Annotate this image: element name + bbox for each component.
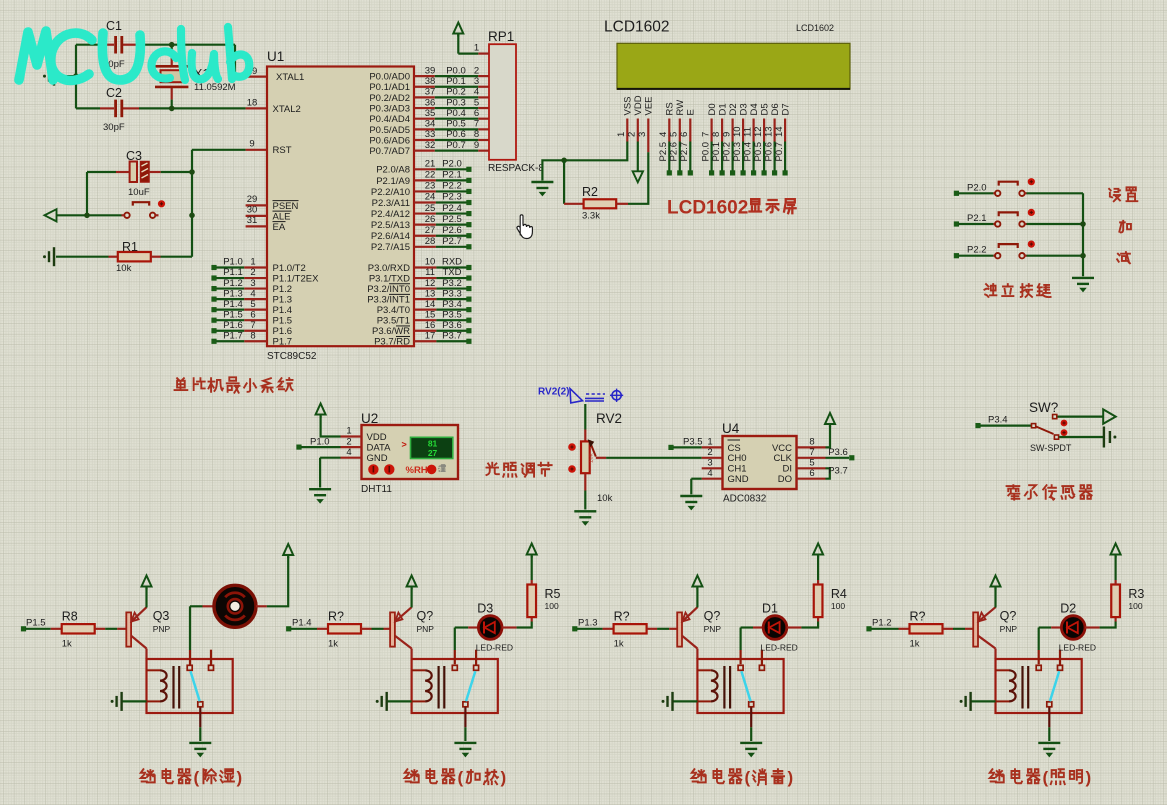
svg-text:>: >	[402, 440, 407, 450]
svg-text:25: 25	[425, 203, 436, 214]
pin P0.5 net to RP1 pin 34 to 7	[414, 128, 435, 130]
svg-text:VDD: VDD	[367, 432, 387, 443]
svg-text:P3.3/INT1: P3.3/INT1	[367, 295, 410, 306]
svg-text:): )	[237, 768, 243, 787]
svg-text:VSS: VSS	[623, 96, 634, 115]
svg-text:P3.4/T0: P3.4/T0	[377, 305, 410, 316]
wire P1.0 to DATA	[301, 446, 341, 448]
svg-text:10: 10	[425, 257, 436, 268]
svg-text:10: 10	[732, 126, 743, 137]
svg-text:(: (	[458, 768, 464, 787]
svg-text:29: 29	[247, 194, 258, 205]
terminal P2.2	[954, 253, 959, 258]
svg-text:ALE: ALE	[273, 211, 291, 222]
svg-text:P0.4: P0.4	[446, 108, 466, 119]
wire base resistor to Q?	[372, 628, 384, 630]
switch SW-SPDT	[1032, 424, 1036, 428]
svg-text:38: 38	[425, 76, 436, 87]
svg-text:P3.3: P3.3	[442, 288, 462, 299]
label shezhi red	[1109, 189, 1120, 201]
wire R1 right	[161, 256, 193, 258]
wire LCD D0 net P0.0	[710, 142, 712, 171]
wire LCD D1 net P0.1	[721, 142, 723, 171]
svg-text:R3: R3	[1128, 587, 1144, 601]
svg-text:12: 12	[425, 278, 436, 289]
label hall sensor red	[1007, 485, 1020, 499]
svg-text:P1.0/T2: P1.0/T2	[273, 263, 306, 274]
svg-text:): )	[501, 768, 507, 787]
pin P2.5 net pin 26	[414, 224, 436, 226]
crystal X1 11.0592M	[171, 45, 173, 55]
wire switch upper to power arrow	[1058, 416, 1104, 418]
wire VDD down	[637, 142, 639, 172]
svg-text:8: 8	[711, 132, 722, 137]
wire relay contact to D2	[1038, 650, 1040, 664]
svg-text:9: 9	[474, 140, 479, 151]
wire relay contact to D3	[454, 650, 456, 664]
svg-text:P0.6: P0.6	[446, 129, 466, 140]
svg-text:12: 12	[753, 126, 764, 137]
terminal P1.3	[572, 626, 577, 631]
wire LCD RW net P2.6	[679, 142, 681, 171]
svg-text:(: (	[1043, 768, 1049, 787]
svg-text:R?: R?	[614, 610, 630, 624]
pin P1.4 stub pin 5	[244, 309, 267, 311]
pin ALE stub pin 30	[246, 215, 267, 217]
svg-text:4: 4	[658, 132, 669, 137]
power arrow R4	[813, 544, 823, 555]
svg-text:26: 26	[425, 214, 436, 225]
relay blade block2	[466, 671, 475, 701]
svg-text:E: E	[686, 109, 697, 115]
relay coil block1	[147, 669, 161, 671]
svg-text:D4: D4	[749, 103, 760, 115]
svg-text:P2.2/A10: P2.2/A10	[371, 187, 410, 198]
pin P1.5 stub pin 6	[244, 319, 267, 321]
wire D1 to R4	[787, 626, 802, 628]
svg-text:VEE: VEE	[644, 96, 655, 115]
svg-text:3: 3	[637, 132, 648, 137]
svg-text:P2.7/A15: P2.7/A15	[371, 242, 410, 253]
wire relay1 left contact to motor	[189, 650, 191, 665]
svg-text:P1.4: P1.4	[292, 617, 312, 628]
wire P2.0 to button	[959, 192, 994, 194]
wire relay coil pin to ground block3	[673, 700, 698, 702]
wire P1.5 to base resistor	[26, 628, 51, 630]
wire relay contact to D1	[739, 650, 741, 664]
relay box block4	[996, 659, 1082, 713]
pin ADC GND pin 4	[702, 478, 723, 480]
svg-text:P3.5: P3.5	[683, 437, 703, 448]
wire button P2.2 to bus	[1027, 255, 1084, 257]
probe dashes blue	[586, 393, 605, 395]
svg-text:U2: U2	[361, 411, 378, 426]
resistor R8 1k	[51, 628, 62, 630]
svg-text:28: 28	[425, 236, 436, 247]
pin P3.3 net pin 13	[414, 298, 436, 300]
wire RST net to chip	[192, 149, 246, 151]
svg-text:RV2: RV2	[596, 411, 622, 426]
lcd LCD1602 screen	[617, 43, 850, 89]
resistor R4 100	[817, 617, 819, 621]
pin P0.6 net to RP1 pin 33 to 8	[414, 139, 435, 141]
svg-text:100: 100	[545, 601, 559, 611]
svg-text:P1.1: P1.1	[223, 267, 243, 278]
svg-text:3: 3	[707, 458, 712, 469]
svg-text:CH0: CH0	[728, 453, 747, 464]
relay box block2	[412, 659, 498, 713]
svg-text:D1: D1	[717, 103, 728, 115]
svg-text:SW?: SW?	[1029, 400, 1058, 415]
button P2.1	[993, 223, 995, 225]
svg-text:P2.4/A12: P2.4/A12	[371, 209, 410, 220]
pin P2.6 net pin 27	[414, 235, 436, 237]
svg-text:SW-SPDT: SW-SPDT	[1030, 443, 1072, 453]
svg-text:R5: R5	[545, 587, 561, 601]
wire R5 to power	[531, 556, 533, 580]
svg-text:RP1: RP1	[488, 29, 514, 44]
wire LCD D7 net P0.7	[784, 142, 786, 171]
svg-text:TXD: TXD	[443, 267, 462, 278]
resistor R3 100	[1114, 617, 1116, 621]
wire switch lower to ground	[1059, 436, 1104, 438]
svg-text:RESPACK-8: RESPACK-8	[488, 163, 544, 174]
svg-text:P0.5: P0.5	[753, 142, 764, 162]
svg-text:GND: GND	[367, 453, 388, 464]
svg-text:D0: D0	[707, 103, 718, 115]
terminal P1.4	[286, 626, 291, 631]
pin P2.3 net pin 24	[414, 201, 436, 203]
svg-text:XTAL1: XTAL1	[276, 72, 304, 83]
led D3 LED-RED	[468, 626, 478, 628]
wire DHT11 GND	[320, 457, 340, 459]
svg-text:11.0592M: 11.0592M	[194, 82, 236, 93]
svg-text:P1.5: P1.5	[223, 309, 243, 320]
pin ADC VCC pin 8	[797, 446, 826, 448]
wire LCD D2 net P0.2	[731, 142, 733, 171]
terminal P3.5 to ADC CS	[668, 445, 673, 450]
svg-text:P1.2: P1.2	[872, 617, 892, 628]
power arrow above Q?	[411, 588, 413, 608]
terminal P1.0 DATA	[296, 445, 301, 450]
pin DHT11 DATA pin 2	[341, 446, 362, 448]
pot RV2 wiper arrow	[591, 445, 596, 457]
button P2.0	[993, 192, 995, 194]
svg-text:4: 4	[250, 288, 255, 299]
svg-text:%RH: %RH	[406, 465, 428, 476]
svg-text:P0.0: P0.0	[700, 142, 711, 162]
pin DHT11 GND pin 4	[341, 457, 362, 459]
wire D2 to R3	[1085, 626, 1100, 628]
power arrow right SW	[1103, 409, 1116, 423]
label jian red	[1117, 252, 1130, 263]
resistor pack RP1 RESPACK-8 body	[489, 44, 516, 160]
svg-text:P1.0: P1.0	[223, 257, 243, 268]
svg-text:D6: D6	[770, 103, 781, 115]
pin ADC DO pin 6	[797, 478, 826, 480]
svg-text:P3.0/RXD: P3.0/RXD	[368, 263, 410, 274]
svg-text:7: 7	[250, 320, 255, 331]
pin P0.4 net to RP1 pin 35 to 6	[414, 118, 435, 120]
svg-text:22: 22	[425, 170, 436, 181]
svg-text:1: 1	[707, 437, 712, 448]
ground RV2	[574, 510, 596, 512]
wire relay coil pin to ground block2	[387, 700, 412, 702]
pin RST stub pin 9	[246, 149, 267, 151]
relay coil block2	[412, 669, 426, 671]
terminal P3.4	[975, 423, 980, 428]
svg-text:6: 6	[679, 132, 690, 137]
svg-text:24: 24	[425, 192, 436, 203]
svg-text:P2.5/A13: P2.5/A13	[371, 220, 410, 231]
svg-text:5: 5	[809, 458, 814, 469]
node junction C3 right	[189, 169, 195, 175]
svg-text:14: 14	[774, 126, 785, 137]
pin P1.2 stub pin 3	[244, 287, 267, 289]
pin XTAL1 stub pin 19	[246, 75, 267, 77]
svg-text:8: 8	[474, 129, 479, 140]
svg-text:R4: R4	[831, 587, 847, 601]
svg-text:2: 2	[346, 436, 351, 447]
svg-text:STC89C52: STC89C52	[267, 351, 317, 362]
svg-text:18: 18	[247, 98, 258, 109]
probe marker blue triangle	[570, 389, 583, 403]
mouse cursor hand	[517, 215, 532, 239]
svg-text:81: 81	[428, 438, 438, 448]
svg-text:3.3k: 3.3k	[582, 211, 600, 222]
wire base resistor to Q?	[657, 628, 669, 630]
pin P3.5 net pin 15	[414, 319, 436, 321]
svg-text:P3.2/INT0: P3.2/INT0	[367, 284, 410, 295]
svg-text:P2.6/A14: P2.6/A14	[371, 231, 410, 242]
label duli anjian red	[984, 284, 996, 297]
svg-text:P0.5/AD5: P0.5/AD5	[369, 125, 410, 136]
svg-text:P0.3: P0.3	[732, 142, 743, 162]
relay contact stubs block2	[452, 665, 457, 670]
svg-text:D2: D2	[728, 103, 739, 115]
pin ADC CLK pin 7	[797, 457, 826, 459]
pin P0.3 net to RP1 pin 36 to 5	[414, 107, 435, 109]
svg-text:P3.4: P3.4	[988, 415, 1008, 426]
svg-text:D7: D7	[780, 103, 791, 115]
svg-text:XTAL2: XTAL2	[273, 104, 301, 115]
node junction button left	[84, 213, 90, 219]
svg-text:Q?: Q?	[417, 609, 434, 623]
svg-text:5: 5	[669, 132, 680, 137]
svg-text:R?: R?	[910, 610, 926, 624]
wire relay common to ground block4	[1048, 707, 1050, 727]
wire RST vertical	[191, 150, 193, 257]
pin P1.1 stub pin 2	[244, 277, 267, 279]
power arrow above RP1	[453, 23, 463, 34]
ground left relay coil block4	[969, 692, 971, 711]
svg-text:10k: 10k	[116, 263, 132, 274]
svg-text:P3.6/WR: P3.6/WR	[372, 326, 410, 337]
power arrow R5	[527, 544, 537, 555]
svg-text:11: 11	[425, 267, 435, 278]
reset button	[133, 202, 149, 205]
svg-text:P3.4: P3.4	[442, 299, 462, 310]
pin PSEN stub pin 29	[246, 204, 267, 206]
svg-text:P0.7: P0.7	[774, 142, 785, 162]
svg-text:(: (	[194, 768, 200, 787]
svg-text:LCD1602: LCD1602	[667, 198, 748, 219]
svg-text:10k: 10k	[597, 493, 613, 504]
wire ADC GND	[691, 478, 701, 480]
svg-text:34: 34	[425, 119, 436, 130]
pin P3.7 net pin 17	[414, 340, 436, 342]
svg-text:27: 27	[425, 225, 436, 236]
relay contact stubs block1	[187, 665, 192, 670]
wire ADC CLK net P3.6	[826, 457, 850, 459]
svg-text:C2: C2	[106, 86, 122, 100]
pin P3.1 net pin 11	[414, 277, 436, 279]
wire button ground bus	[1082, 193, 1084, 276]
wire RV2 top	[584, 404, 586, 430]
pin EA stub pin 31	[246, 225, 267, 227]
svg-text:P2.3: P2.3	[442, 192, 462, 203]
output arrow VDD down	[633, 171, 643, 182]
transistor Q? PNP	[677, 612, 682, 646]
pin ADC DI pin 5	[797, 467, 826, 469]
svg-text:16: 16	[425, 320, 436, 331]
svg-text:Q?: Q?	[1000, 609, 1017, 623]
wire LCD E net P2.7	[689, 142, 691, 171]
svg-text:U1: U1	[267, 49, 284, 64]
svg-text:P1.2: P1.2	[273, 284, 293, 295]
label danpianji zuixiao xitong red	[175, 378, 188, 390]
svg-text:100: 100	[831, 601, 845, 611]
transistor Q? PNP	[973, 612, 978, 646]
svg-text:35: 35	[425, 108, 436, 119]
wire R2 branch vertical	[563, 160, 565, 204]
power arrow above Q?	[696, 588, 698, 608]
svg-text:P1.1/T2EX: P1.1/T2EX	[273, 273, 320, 284]
wire P2.2 to button	[959, 255, 994, 257]
svg-text:36: 36	[425, 97, 436, 108]
svg-text:27: 27	[428, 448, 438, 458]
svg-text:P0.0: P0.0	[446, 65, 466, 76]
wire LCD D3 net P0.3	[742, 142, 744, 171]
wire R1 left to ground	[56, 256, 109, 258]
wire base resistor to Q?	[953, 628, 965, 630]
ground ADC	[680, 495, 702, 497]
svg-text:P2.2: P2.2	[442, 181, 462, 192]
svg-text:5: 5	[474, 97, 479, 108]
svg-text:PNP: PNP	[417, 624, 435, 634]
ground relay common block2	[454, 742, 476, 744]
wire ADC VCC to power	[826, 425, 831, 447]
wire P1.2 to base resistor	[871, 628, 899, 630]
svg-text:P2.1: P2.1	[442, 170, 462, 181]
svg-text:DI: DI	[783, 464, 793, 475]
svg-text:P3.7: P3.7	[442, 330, 462, 341]
probe target symbol blue	[612, 391, 621, 400]
svg-text:P2.7: P2.7	[679, 142, 690, 162]
svg-text:4: 4	[346, 447, 351, 458]
svg-text:13: 13	[763, 126, 774, 137]
pin P2.0 net pin 21	[414, 168, 436, 170]
pin P2.4 net pin 25	[414, 212, 436, 214]
svg-text:EA: EA	[273, 222, 286, 233]
svg-text:11: 11	[742, 127, 753, 137]
pin P0.2 net to RP1 pin 37 to 4	[414, 96, 435, 98]
wire RV2 bottom to ground	[584, 473, 586, 490]
terminal P2.0	[954, 191, 959, 196]
transistor Q? PNP	[390, 612, 395, 646]
wire LCD D5 net P0.5	[763, 142, 765, 171]
svg-text:6: 6	[474, 108, 479, 119]
power arrow motor	[283, 544, 293, 555]
svg-text:P3.6: P3.6	[828, 447, 848, 458]
svg-text:LCD1602: LCD1602	[604, 19, 670, 36]
ground left of R1	[53, 247, 55, 266]
terminal arrow left at reset row	[45, 209, 57, 221]
wire R3 to power	[1114, 556, 1116, 580]
motor dehumidifier	[203, 605, 215, 607]
wire button P2.0 to bus	[1027, 192, 1084, 194]
svg-text:Q3: Q3	[153, 609, 170, 623]
power arrow R3	[1111, 544, 1121, 555]
svg-text:P2.3/A11: P2.3/A11	[372, 198, 410, 209]
pin P1.7 stub pin 8	[244, 340, 267, 342]
svg-text:P1.0: P1.0	[310, 436, 330, 447]
svg-text:PNP: PNP	[704, 624, 722, 634]
svg-text:DATA: DATA	[367, 443, 392, 454]
wire base resistor to Q3	[105, 628, 117, 630]
svg-text:P2.0: P2.0	[442, 159, 462, 170]
svg-text:P3.7: P3.7	[828, 466, 848, 477]
ground relay common block3	[740, 742, 762, 744]
label guangzhao tiaojie red	[486, 463, 498, 475]
ground relay common block4	[1038, 742, 1060, 744]
wire button P2.1 to bus	[1027, 223, 1084, 225]
svg-text:21: 21	[425, 159, 436, 170]
ground DHT11	[309, 488, 331, 490]
node junction crystal top	[169, 42, 175, 48]
svg-text:P2.4: P2.4	[442, 203, 462, 214]
svg-text:33: 33	[425, 129, 436, 140]
wire P1.3 to base resistor	[577, 628, 603, 630]
pin P0.0 net to RP1 pin 39 to 2	[414, 75, 435, 77]
svg-text:P0.5: P0.5	[446, 119, 466, 130]
svg-text:R8: R8	[62, 610, 78, 624]
svg-text:P0.7/AD7: P0.7/AD7	[369, 146, 410, 157]
svg-text:P0.1: P0.1	[446, 76, 466, 87]
wire relay coil pin to ground block4	[971, 700, 996, 702]
svg-text:P3.1/TXD: P3.1/TXD	[369, 273, 410, 284]
svg-text:D3: D3	[477, 602, 493, 616]
svg-text:4: 4	[474, 87, 479, 98]
wire relay common to ground block3	[750, 707, 752, 727]
svg-text:PNP: PNP	[1000, 624, 1018, 634]
svg-text:P3.6: P3.6	[442, 320, 462, 331]
capacitor C1	[100, 44, 114, 46]
ground left of crystal caps	[56, 75, 76, 77]
ground right SW	[1103, 427, 1105, 448]
svg-text:1k: 1k	[62, 639, 72, 650]
button P2.2	[993, 255, 995, 257]
relay blade block1	[191, 671, 200, 701]
led D2 LED-RED	[1051, 626, 1061, 628]
ground left relay coil block2	[386, 692, 388, 711]
svg-text:30pF: 30pF	[103, 122, 125, 133]
resistor R5 100	[531, 617, 533, 621]
resistor R? 1k	[317, 628, 328, 630]
svg-text:9: 9	[249, 139, 254, 150]
wire LCD D4 net P0.4	[752, 142, 754, 171]
svg-text:5: 5	[250, 299, 255, 310]
